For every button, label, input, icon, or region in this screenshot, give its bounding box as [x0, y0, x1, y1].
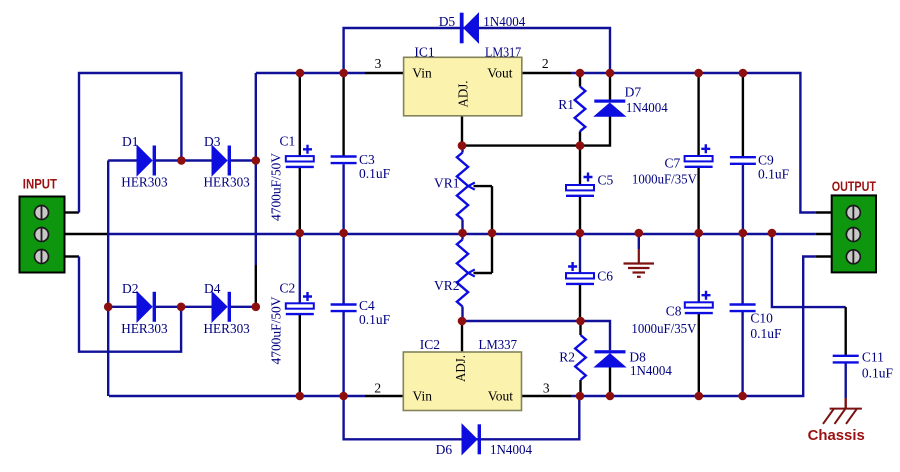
- pin 2 IC1: [542, 56, 549, 71]
- wire D8 anode lead: [609, 367, 611, 396]
- capacitor C9: [730, 157, 756, 164]
- label IC2 ADJ rotated: [453, 355, 468, 382]
- label D7 value: [626, 100, 668, 115]
- wire center 0V rail stub at INPUT: [64, 233, 108, 235]
- wire OUTPUT terminal1 stub: [816, 211, 832, 213]
- diode D8: [595, 350, 626, 367]
- wire C6 top lead: [579, 233, 581, 273]
- diode D5: [460, 13, 479, 44]
- label OUTPUT: [832, 178, 877, 194]
- wire INPUT AC1 stub: [64, 211, 79, 213]
- svg-text:ADJ.: ADJ.: [453, 355, 468, 382]
- wire center 0V rail: [108, 233, 816, 235]
- svg-text:4700uF/50V: 4700uF/50V: [269, 296, 284, 364]
- wire C4 bottom lead: [342, 311, 344, 396]
- wire C7 top lead: [697, 73, 699, 156]
- svg-text:C6: C6: [597, 269, 613, 284]
- wire ADJ1 node to D7 anode: [580, 116, 610, 145]
- node -rail C4/D6: [339, 392, 348, 401]
- wire IC2 ADJ pin stub: [461, 321, 463, 352]
- svg-text:ADJ.: ADJ.: [456, 81, 471, 108]
- svg-text:0.1uF: 0.1uF: [862, 366, 894, 381]
- wire IC1 ADJ pin stub: [461, 116, 463, 146]
- wire R2 top lead: [579, 321, 581, 335]
- svg-text:1N4004: 1N4004: [483, 14, 525, 29]
- capacitor C4: [331, 305, 357, 312]
- wire C11 bottom lead: [845, 362, 847, 398]
- wire D1/D2 anodes vertical to -rail: [107, 161, 109, 397]
- wire VR1 bottom lead: [461, 220, 463, 234]
- capacitor C3: [331, 157, 357, 164]
- label VR2: [434, 278, 460, 293]
- label IC1 Vin: [412, 65, 432, 80]
- capacitor C2: [286, 292, 314, 314]
- wire C11 to chassis: [845, 398, 847, 409]
- svg-text:INPUT: INPUT: [23, 175, 58, 191]
- capacitor C8: [685, 291, 713, 313]
- terminal block OUTPUT: [832, 195, 876, 272]
- wire C8 top lead: [698, 234, 700, 302]
- node -rail C8: [695, 392, 704, 401]
- chassis ground symbol: [823, 409, 862, 424]
- node 0V ground: [635, 229, 644, 238]
- svg-text:C3: C3: [359, 152, 375, 167]
- node +rail D5/D7: [606, 69, 615, 78]
- wire IC2 pin2 stub: [365, 395, 403, 397]
- label C4: [359, 298, 375, 313]
- node 0V C5/C6: [576, 229, 585, 238]
- pin 3 IC1: [375, 56, 382, 71]
- label Chassis: [808, 428, 865, 444]
- wire C2 top lead: [299, 234, 301, 303]
- node +rail R1: [576, 69, 585, 78]
- node 0V C7/C8: [694, 229, 703, 238]
- wire C4 top lead: [342, 234, 344, 305]
- label C9 value: [758, 166, 790, 181]
- label C2 value rotated: [269, 296, 284, 364]
- svg-text:VR1: VR1: [434, 176, 460, 191]
- svg-text:Vout: Vout: [488, 389, 514, 404]
- wire wiper bracket vertical: [491, 186, 493, 273]
- svg-text:2: 2: [542, 56, 549, 71]
- label C11: [862, 350, 884, 365]
- label C1: [280, 134, 296, 149]
- wire INPUT AC1 to D1/D3 junction: [79, 73, 181, 213]
- label IC2 value: [479, 337, 518, 352]
- diode D2: [137, 292, 156, 322]
- svg-text:3: 3: [375, 56, 382, 71]
- label D2 value: [121, 321, 168, 336]
- label IC1 Vout: [487, 65, 513, 80]
- node +rail C9: [739, 69, 748, 78]
- svg-text:3: 3: [543, 381, 550, 396]
- wire C6 bottom lead: [579, 284, 581, 321]
- wire IC2 pin3 stub: [522, 395, 572, 397]
- svg-text:1000uF/35V: 1000uF/35V: [631, 321, 696, 336]
- label IC2 Vin: [413, 389, 433, 404]
- node +rail C7: [694, 69, 703, 78]
- wire C9 top lead: [742, 73, 744, 157]
- wire C5 top lead: [579, 146, 581, 185]
- wire C3 bottom lead: [342, 164, 344, 233]
- node -rail C2: [296, 392, 305, 401]
- svg-text:1N4004: 1N4004: [630, 363, 672, 378]
- wire D2 anode segment: [108, 306, 137, 308]
- wire D1 anode segment: [108, 159, 137, 161]
- svg-text:OUTPUT: OUTPUT: [832, 178, 877, 194]
- wire +V output rail Vout to OUTPUT: [571, 73, 816, 213]
- svg-text:1000uF/35V: 1000uF/35V: [632, 171, 697, 186]
- svg-text:D5: D5: [439, 14, 456, 29]
- wire ground stub: [638, 234, 640, 249]
- svg-text:1N4004: 1N4004: [626, 100, 668, 115]
- node +rail C3/D5: [339, 69, 348, 78]
- wire OUTPUT terminal2 stub: [816, 233, 832, 235]
- svg-text:C5: C5: [598, 173, 614, 188]
- node D2 anode: [104, 303, 113, 312]
- diode D6: [462, 424, 481, 454]
- label C3 value: [359, 166, 391, 181]
- node 0V C11 jog: [768, 229, 777, 238]
- wire D1 cathode to D3 anode: [155, 159, 212, 161]
- wire R1 bottom lead: [579, 131, 581, 145]
- label D6: [436, 442, 453, 457]
- label D5: [439, 14, 456, 29]
- wire R2 bottom lead: [579, 380, 581, 396]
- pin 2 IC2: [374, 381, 381, 396]
- diode D1: [137, 146, 156, 176]
- label IC1 value: [485, 45, 521, 60]
- label C11 value: [862, 366, 894, 381]
- svg-text:D7: D7: [625, 85, 642, 100]
- label D1: [122, 134, 139, 149]
- wire OUTPUT terminal3 stub: [816, 255, 832, 257]
- wire C7 bottom lead: [697, 167, 699, 233]
- resistor R1: [575, 87, 586, 132]
- wire VR1 top lead: [461, 146, 463, 153]
- node ADJ1 VR1: [458, 141, 467, 150]
- svg-text:C4: C4: [359, 298, 375, 313]
- label C4 value: [359, 312, 391, 327]
- svg-text:0.1uF: 0.1uF: [758, 166, 790, 181]
- svg-text:C8: C8: [666, 304, 682, 319]
- node ADJ2 VR2: [458, 317, 467, 326]
- node ADJ1 R1/C5: [576, 141, 585, 150]
- svg-text:2: 2: [374, 381, 381, 396]
- wire 0V jog to C11: [772, 234, 846, 307]
- node D4 cathode: [252, 303, 261, 312]
- svg-text:1N4004: 1N4004: [490, 442, 532, 457]
- svg-text:C9: C9: [758, 153, 774, 168]
- wire INPUT AC2 stub: [64, 255, 79, 257]
- wire D4 cathode segment: [231, 306, 256, 308]
- label D5 value: [483, 14, 525, 29]
- wire -V rail left to IC2 Vin: [109, 395, 365, 397]
- op-amp U1 regulator IC1 LM317 body: [404, 57, 522, 116]
- svg-text:R2: R2: [559, 350, 575, 365]
- wire rectifier top vertical D3/D4 cathodes to +rail: [255, 73, 257, 265]
- wire ADJ2 node horizontal: [462, 320, 581, 322]
- wire C5 bottom lead: [579, 196, 581, 233]
- svg-text:IC2: IC2: [420, 337, 440, 352]
- capacitor C1: [286, 145, 314, 167]
- svg-text:VR2: VR2: [434, 278, 460, 293]
- wire C1 top lead: [299, 73, 301, 156]
- label D6 value: [490, 442, 532, 457]
- node D3 cathode: [252, 156, 261, 165]
- wire ADJ2 node to D8 cathode: [581, 321, 611, 350]
- wire VR2 wiper tap: [474, 272, 493, 274]
- label C2: [280, 281, 296, 296]
- wire C1 bottom lead: [299, 167, 301, 233]
- label C10: [750, 310, 773, 325]
- wire C8 bottom lead: [698, 313, 700, 396]
- wire D3 cathode segment: [231, 159, 256, 161]
- svg-text:Vin: Vin: [412, 65, 432, 80]
- label IC1 ADJ rotated: [456, 81, 471, 108]
- label C1 value rotated: [269, 153, 284, 221]
- diode D4: [212, 292, 231, 322]
- wire VR2 top lead: [461, 233, 463, 240]
- svg-text:Vin: Vin: [413, 389, 433, 404]
- label IC1: [414, 45, 434, 60]
- svg-text:C7: C7: [665, 156, 681, 171]
- node 0V C3: [339, 229, 348, 238]
- label D1 value: [121, 175, 168, 190]
- svg-text:HER303: HER303: [204, 321, 251, 336]
- wire D2 cathode to D4 anode: [155, 306, 212, 308]
- label C6: [597, 269, 613, 284]
- svg-text:0.1uF: 0.1uF: [359, 312, 391, 327]
- wire C9 bottom lead: [742, 164, 744, 233]
- label IC2: [420, 337, 440, 352]
- wire C3 top lead: [342, 73, 344, 157]
- node ADJ2 R2/C6: [576, 317, 585, 326]
- svg-text:C1: C1: [280, 134, 296, 149]
- svg-text:HER303: HER303: [121, 175, 168, 190]
- wire D5 top loop: [344, 28, 610, 73]
- node -rail R2/D6: [576, 392, 585, 401]
- svg-text:D3: D3: [204, 134, 221, 149]
- capacitor C11: [833, 356, 859, 363]
- node 0V C1: [296, 229, 305, 238]
- label VR1: [434, 176, 460, 191]
- diode D7: [594, 100, 625, 117]
- node 0V wiper: [488, 229, 497, 238]
- capacitor C6: [566, 262, 594, 284]
- label D4: [204, 281, 221, 296]
- wire VR1 wiper tap: [474, 185, 493, 187]
- node -rail C10: [738, 392, 747, 401]
- wire VR2 bottom lead: [461, 307, 463, 322]
- node -rail D8: [606, 392, 615, 401]
- resistor R2: [575, 335, 586, 380]
- label C8: [666, 304, 682, 319]
- svg-text:HER303: HER303: [121, 321, 168, 336]
- label C10 value: [750, 326, 782, 341]
- label R2: [559, 350, 575, 365]
- svg-text:IC1: IC1: [414, 45, 434, 60]
- svg-text:LM317: LM317: [485, 45, 521, 60]
- wire D4 cathode to D3 cathode (lower part): [255, 265, 257, 307]
- svg-text:C11: C11: [862, 350, 884, 365]
- label D3: [204, 134, 221, 149]
- capacitor C10: [730, 305, 756, 312]
- svg-text:D1: D1: [122, 134, 139, 149]
- wire R1 top lead: [579, 73, 581, 87]
- label C3: [359, 152, 375, 167]
- wire -V rail Vout to OUTPUT: [571, 257, 816, 397]
- wire C10 top lead: [741, 234, 743, 305]
- label C8 value: [631, 321, 696, 336]
- wire C11 top lead: [845, 307, 847, 356]
- label C7 value: [632, 171, 697, 186]
- capacitor C7: [685, 144, 713, 167]
- terminal block INPUT: [20, 197, 65, 273]
- wire ADJ1 node horizontal: [462, 144, 580, 146]
- label INPUT: [23, 175, 58, 191]
- svg-text:Vout: Vout: [487, 65, 513, 80]
- potentiometer VR2: [457, 240, 475, 307]
- node 0V VR: [458, 229, 467, 238]
- svg-text:Chassis: Chassis: [808, 428, 865, 444]
- svg-text:D2: D2: [122, 281, 139, 296]
- svg-text:4700uF/50V: 4700uF/50V: [269, 153, 284, 221]
- potentiometer VR1: [457, 153, 475, 220]
- label D8: [629, 350, 646, 365]
- pin 3 IC2: [543, 381, 550, 396]
- wire +V rail from rectifier to IC1 Vin: [256, 72, 365, 74]
- capacitor C5: [566, 173, 594, 196]
- svg-text:0.1uF: 0.1uF: [359, 166, 391, 181]
- svg-text:R1: R1: [558, 97, 574, 112]
- svg-text:C10: C10: [750, 310, 773, 325]
- label C7: [665, 156, 681, 171]
- label C9: [758, 153, 774, 168]
- diode D3: [212, 146, 231, 176]
- node 0V C9/C10: [739, 229, 748, 238]
- svg-text:D4: D4: [204, 281, 221, 296]
- label D3 value: [204, 175, 251, 190]
- ground symbol earth: [624, 249, 655, 277]
- label D7: [625, 85, 642, 100]
- svg-text:0.1uF: 0.1uF: [750, 326, 782, 341]
- svg-text:LM337: LM337: [479, 337, 518, 352]
- op-amp U2 regulator IC2 LM337 body: [403, 352, 521, 411]
- wire D6 bottom loop: [344, 396, 580, 439]
- wire C10 bottom lead: [741, 311, 743, 396]
- svg-text:HER303: HER303: [204, 175, 251, 190]
- node D1-D3 junction: [177, 156, 186, 165]
- wire IC1 pin3 stub: [365, 72, 404, 74]
- wire D7 cathode lead: [609, 73, 611, 100]
- label C5: [598, 173, 614, 188]
- label D8 value: [630, 363, 672, 378]
- wire C2 bottom lead: [299, 314, 301, 396]
- label D4 value: [204, 321, 251, 336]
- node D2-D4 junction: [177, 303, 186, 312]
- node +rail C1: [296, 69, 305, 78]
- label R1: [558, 97, 574, 112]
- wire INPUT AC2 to D2/D4 junction: [79, 257, 181, 352]
- label IC2 Vout: [488, 389, 514, 404]
- wire IC1 pin2 stub: [522, 72, 571, 74]
- svg-text:D6: D6: [436, 442, 453, 457]
- svg-text:C2: C2: [280, 281, 296, 296]
- label D2: [122, 281, 139, 296]
